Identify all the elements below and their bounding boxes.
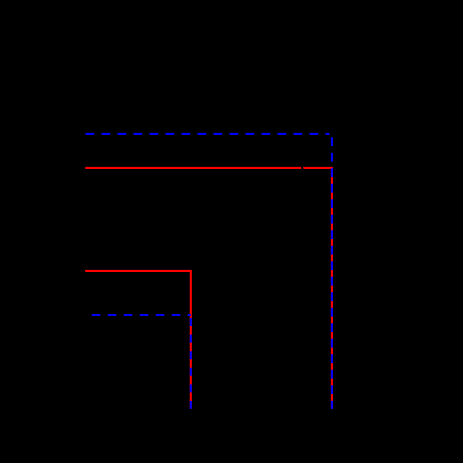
black curve crossing (break in red upper line near x=302) bbox=[301, 162, 304, 174]
red solid guide: lower point (x=190.8, y=270.9) horizontal + vertical drop bbox=[85, 271, 191, 409]
blue dashed guide: lower vertical drop (x=190.8) bbox=[190, 315, 192, 409]
blue dashed guide: lower horizontal (y=315.0) bbox=[86, 314, 191, 316]
blue dashed guide: upper vertical drop (x=331.9) bbox=[331, 134, 333, 409]
blue dashed guide: upper horizontal (y=133.9) bbox=[86, 133, 330, 135]
red solid guide: upper point (x=331.9, y=167.9) horizontal + vertical drop bbox=[85, 168, 332, 409]
